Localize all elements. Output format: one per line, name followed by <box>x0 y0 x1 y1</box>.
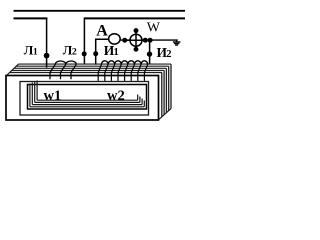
wattmeter bottom dot <box>134 47 139 52</box>
core window lamination left bars <box>30 81 37 107</box>
core window lamination bottom lines <box>30 100 144 107</box>
core window lamination right corner bars <box>138 95 145 107</box>
wattmeter top dot <box>134 28 139 33</box>
wire to ground <box>150 40 177 42</box>
wire ammeter to wattmeter node <box>120 39 150 41</box>
svg-text:w2: w2 <box>107 88 125 104</box>
node И2 top junction dot <box>148 38 153 43</box>
wattmeter cross vertical <box>135 31 137 50</box>
wattmeter right dot <box>143 38 148 43</box>
bus wire line 1 <box>14 10 186 12</box>
core top-left depth diagonal <box>7 64 19 75</box>
wire И2 drop <box>149 40 151 63</box>
core lamination right edge lines <box>162 64 171 117</box>
svg-text:W: W <box>147 21 161 36</box>
svg-text:Л2: Л2 <box>63 44 77 58</box>
core lamination top edge lines <box>9 64 171 72</box>
node Л2 <box>82 51 87 56</box>
core bottom-right depth diagonal <box>159 109 172 120</box>
wire Л2 drop <box>83 18 85 65</box>
junction dot ammeter-wattmeter <box>122 38 127 43</box>
ammeter U1 circle <box>109 34 121 44</box>
svg-text:A: A <box>96 23 108 40</box>
winding w2 arcs <box>102 61 148 65</box>
svg-text:Л1: Л1 <box>24 44 38 58</box>
core front face outer rectangle <box>6 76 159 121</box>
node Л1 <box>44 53 50 59</box>
core window front rectangle <box>28 85 147 110</box>
wire Л1 drop <box>46 18 48 68</box>
wattmeter cross horizontal <box>125 39 146 41</box>
winding w1 arcs <box>55 61 76 64</box>
core inner second outline <box>20 82 149 116</box>
winding w1 front strokes <box>50 64 76 79</box>
wattmeter W circle <box>130 34 142 46</box>
winding w2 front strokes <box>98 64 148 81</box>
ground symbol <box>173 42 181 45</box>
bus wire line 2 right segment <box>84 17 185 19</box>
wire И1 up to ammeter <box>96 39 109 64</box>
bus wire line 2 left segment <box>14 17 48 19</box>
node И1 <box>93 51 98 56</box>
svg-text:w1: w1 <box>44 88 62 104</box>
node И2 <box>147 51 152 56</box>
